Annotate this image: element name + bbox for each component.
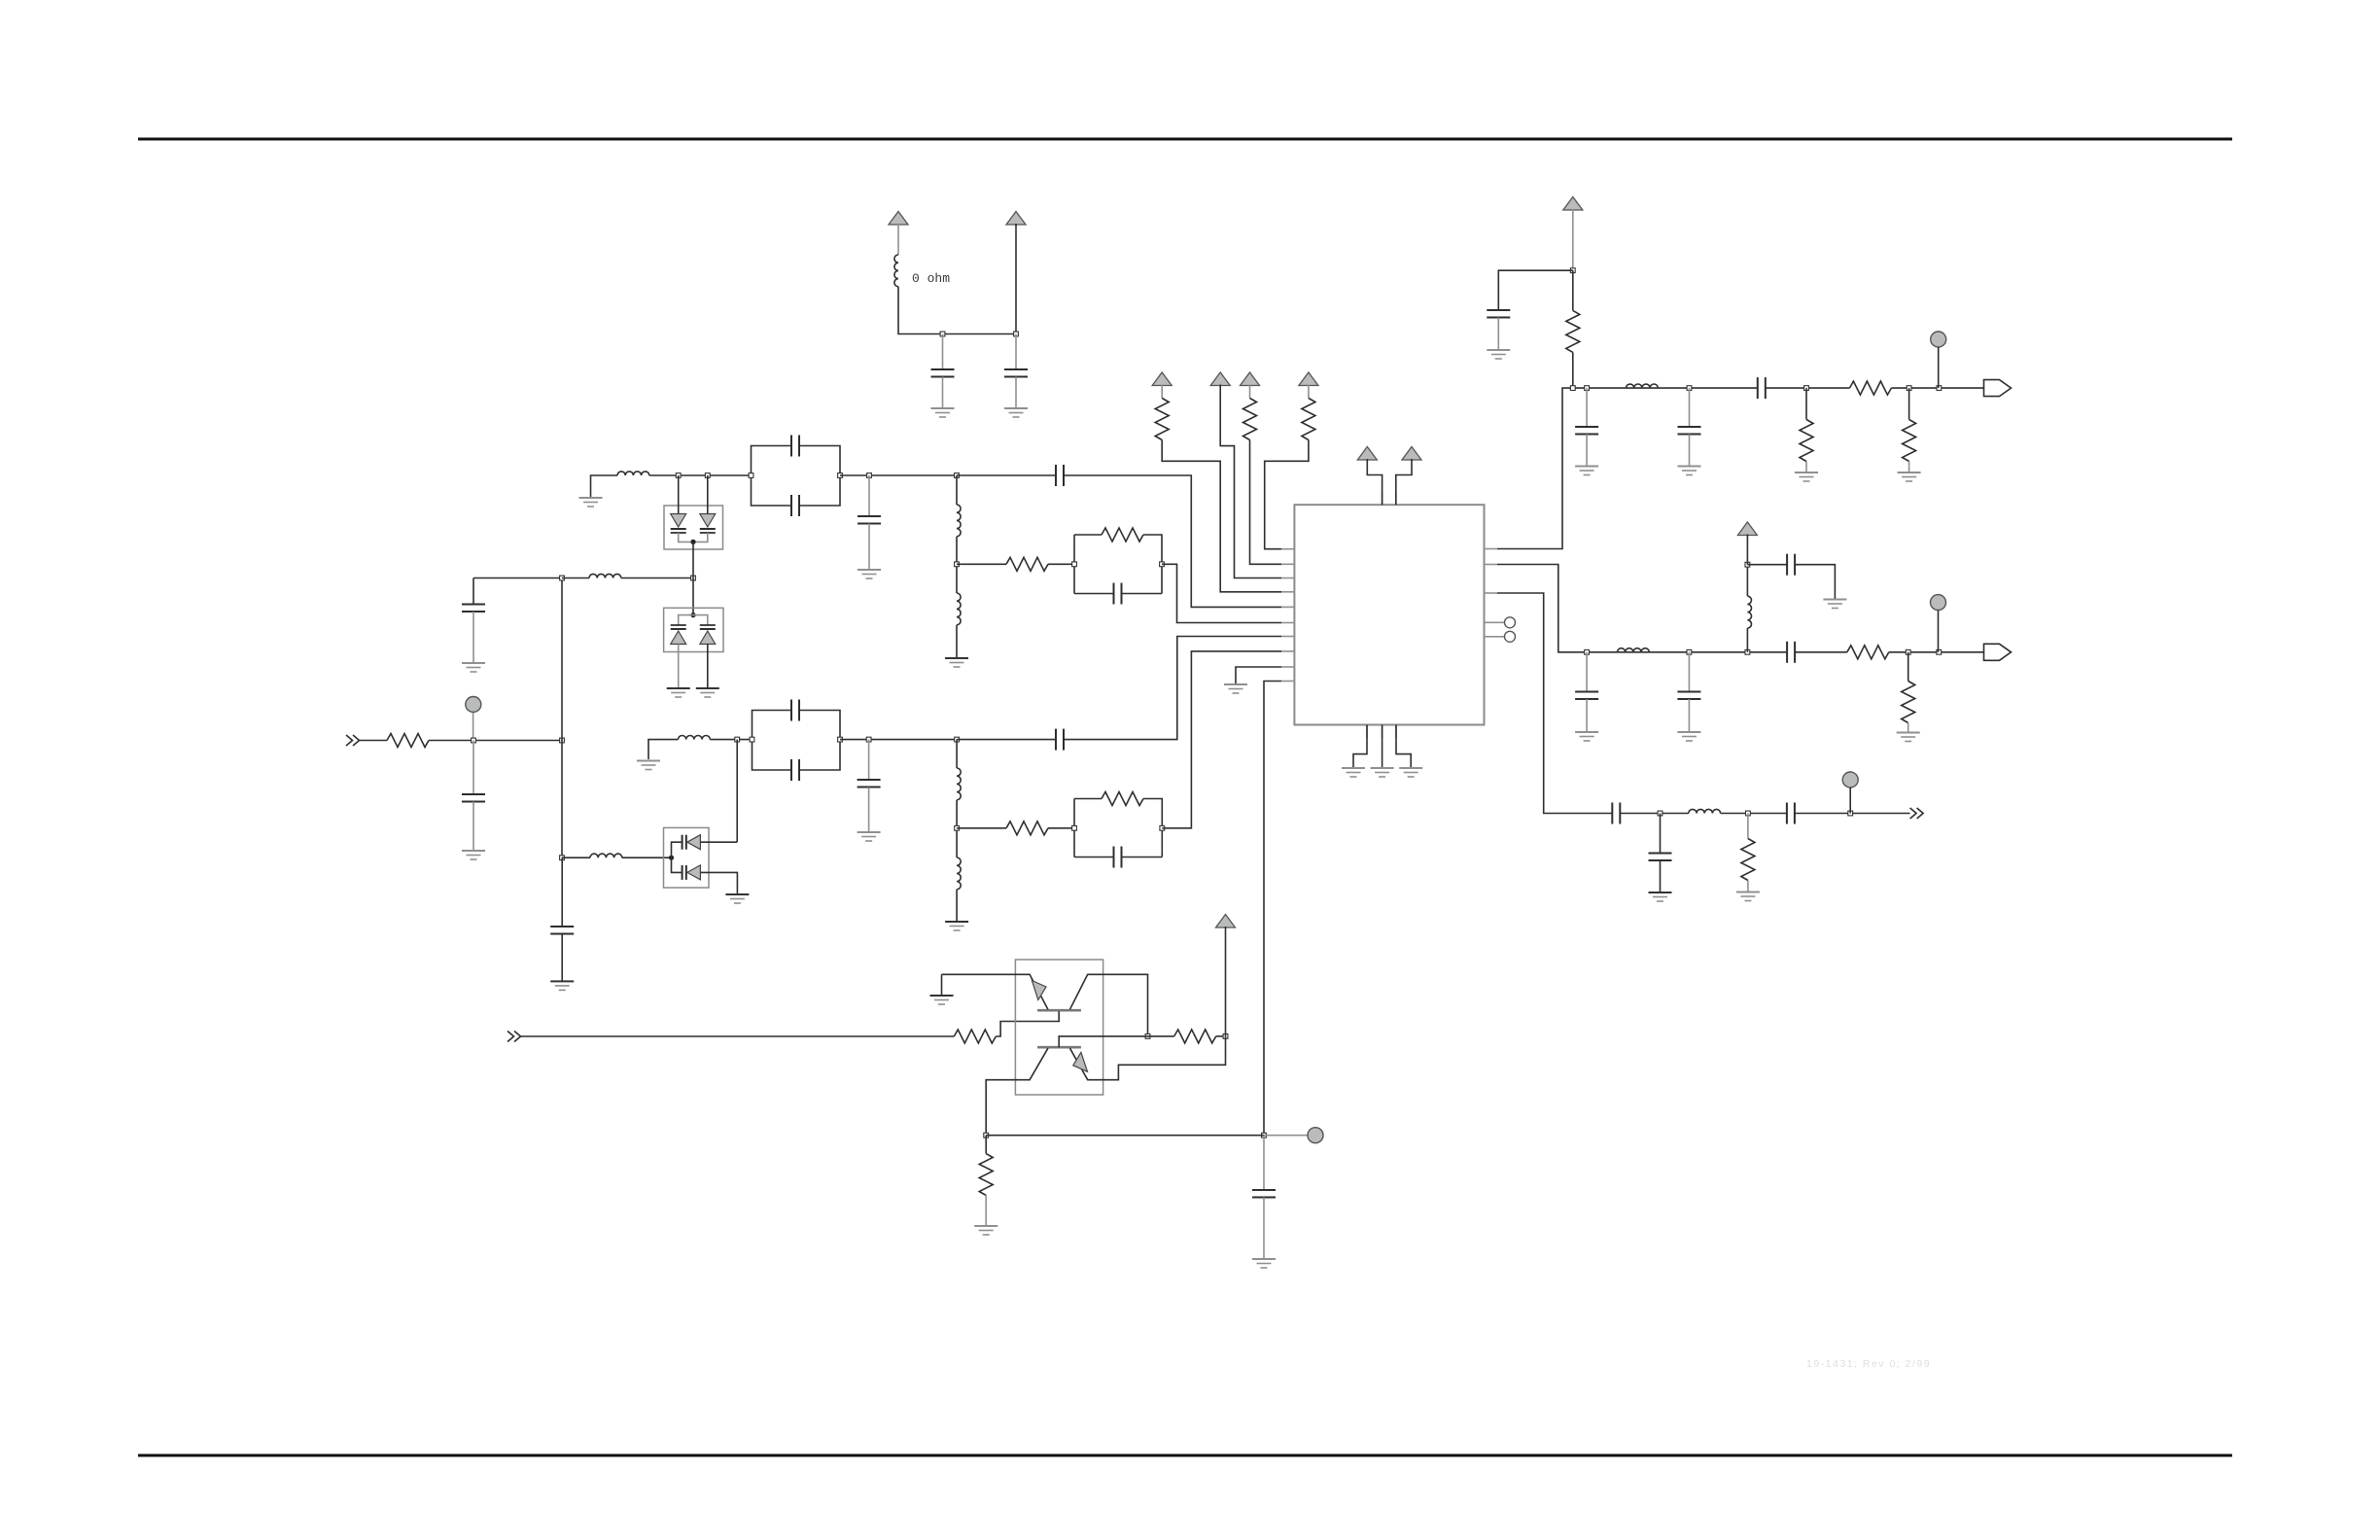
RC2 junctions <box>1072 825 1165 830</box>
resistor R18 <box>979 1154 993 1196</box>
wire NC stub 1 <box>1497 621 1505 623</box>
capacitor C23 series <box>1612 803 1620 824</box>
wire R18 stem <box>985 1136 987 1154</box>
wire C26 to ground <box>1263 1198 1265 1259</box>
wire C2 stem <box>1015 334 1017 370</box>
wire C24 stem <box>1660 814 1662 854</box>
transistor Q2 bar <box>1037 1046 1081 1049</box>
power symbol VCC4 <box>1210 372 1230 386</box>
wire CB2 to node F <box>840 739 957 741</box>
IC U1 right pin stubs <box>1485 549 1498 637</box>
RC2 bottom branch <box>1074 857 1114 858</box>
ground G29 <box>930 996 954 1004</box>
wire C7 stem <box>868 475 870 516</box>
ground G26 <box>1897 733 1920 742</box>
capacitor C22 series <box>1787 642 1795 663</box>
wire chain2 left drop <box>648 740 679 759</box>
wire C20 stem <box>1688 652 1690 691</box>
node F junctions <box>866 737 959 742</box>
capacitor C17 <box>1678 427 1701 435</box>
diode D2a <box>671 625 686 645</box>
wire node H link <box>986 1135 1264 1137</box>
wire R6 to pin <box>1162 440 1281 592</box>
wire R17 lead2 <box>1216 1035 1226 1037</box>
wire D2a to ground <box>678 645 680 688</box>
testpoint TP1 <box>466 697 481 713</box>
capacitor C12 <box>857 780 881 787</box>
ground G15 <box>1371 768 1394 777</box>
resistor R2 <box>1006 557 1048 571</box>
wire C18 to R10 <box>1766 387 1850 389</box>
wire R2 to RC1 <box>1048 563 1074 565</box>
node J junction <box>1804 386 1809 391</box>
wire TP5 stem <box>1264 1135 1308 1137</box>
inductor L8 <box>957 768 961 800</box>
wire C16 to ground <box>1586 435 1588 466</box>
bottom border rule <box>138 1454 2232 1457</box>
ground G13 <box>725 894 749 903</box>
wire RC1 out to pin <box>1162 564 1281 622</box>
testpoint TP2 <box>1931 332 1946 347</box>
wire node D to R2 <box>957 563 1006 565</box>
node D2 dot <box>690 612 695 617</box>
ground G16 <box>1399 768 1422 777</box>
wire VCC5 stem <box>1249 385 1251 399</box>
diode pack D2 outline <box>664 608 723 651</box>
chain1 junctions <box>1570 386 1692 391</box>
RC1 top branch <box>1074 534 1102 536</box>
wire L7 to capbox2 <box>710 739 752 741</box>
wire pin9 to ground <box>1236 667 1281 683</box>
wire R16 to Q1 base <box>996 1010 1059 1036</box>
inductor L7 <box>679 736 711 740</box>
power symbol VCC11 <box>1216 915 1236 928</box>
connector J3 output2 <box>1984 644 2012 660</box>
capacitor C2 <box>1004 369 1028 377</box>
wire Q1 collector <box>1070 974 1148 1036</box>
capacitor C8 series <box>1056 465 1064 486</box>
wire C3 stem <box>472 741 474 795</box>
resistor R6 <box>1155 399 1169 440</box>
capacitor box CB1 frame right <box>799 446 840 507</box>
wire L12 to node L <box>1746 565 1748 597</box>
wire J5 to R16 <box>521 1035 955 1037</box>
wire C26 stem <box>1263 1136 1265 1190</box>
resistor R15 <box>1741 839 1755 881</box>
node C junctions <box>867 473 960 478</box>
ground G24 <box>1677 732 1700 741</box>
node junctions top block <box>940 332 1018 336</box>
wire Q2 emitter <box>986 1048 1048 1136</box>
resistor R10 <box>1849 381 1891 395</box>
resistor R12 <box>1903 420 1916 462</box>
wire L5 to L6 <box>956 537 958 593</box>
wire C13 to pin IN2 <box>1064 637 1281 740</box>
ground G23 <box>1575 732 1598 741</box>
capacitor C1 <box>931 369 955 377</box>
wire C20 to ground <box>1688 699 1690 731</box>
capacitor C16 <box>1575 427 1598 435</box>
RC2 top branch <box>1074 798 1102 800</box>
ground G22 <box>1898 472 1921 481</box>
wire pin O2 down <box>1497 565 1587 652</box>
wire R1 to node A <box>429 740 473 742</box>
resistor R16 <box>954 1030 996 1043</box>
diode D3b <box>682 865 701 880</box>
wire C17 to ground <box>1689 435 1691 466</box>
IC U1 left pin stubs <box>1281 549 1294 682</box>
wire R14 stem <box>1907 652 1909 682</box>
inductor L4 <box>617 472 649 475</box>
wire D3 anode join <box>672 842 682 872</box>
node P junction <box>1145 1034 1150 1039</box>
chain2 out junctions <box>1906 649 1941 654</box>
ground G4 <box>462 663 485 672</box>
chain2 junctions <box>1585 649 1750 654</box>
capacitor C14 <box>1114 847 1122 868</box>
wire shunt top <box>956 475 958 505</box>
wire R11 stem <box>1805 388 1807 419</box>
capacitor C15 <box>1487 310 1510 318</box>
capacitor box CB1 frame <box>752 446 792 507</box>
wire C16 stem <box>1586 388 1588 426</box>
resistor R14 <box>1902 682 1915 723</box>
capacitor C13 series <box>1056 729 1064 751</box>
wire VCC9 stem <box>1572 209 1574 270</box>
wire node B to D2 <box>692 578 694 615</box>
wire node Q to Q2 collector <box>1070 1036 1226 1080</box>
wire VCC10 stem <box>1746 535 1748 565</box>
wire Q2 base <box>1059 1036 1147 1047</box>
RC2 frame left <box>1073 799 1075 857</box>
wire C2 to ground <box>1015 377 1017 408</box>
wire Q1 emitter ground drop <box>941 974 943 995</box>
node M junction <box>1658 811 1662 816</box>
ground G21 <box>1795 472 1818 481</box>
wire C4 to ground <box>472 612 474 662</box>
node K junctions <box>1907 386 1942 391</box>
wire TP1 stem <box>472 713 474 741</box>
wire C12 to ground <box>868 787 870 832</box>
power symbol VCC7 <box>1357 447 1377 461</box>
inductor L11 <box>1618 648 1650 652</box>
RC1 junctions <box>1072 562 1165 567</box>
CB1 junctions <box>749 473 842 478</box>
wire pin O3 down <box>1497 593 1612 814</box>
capacitor C5 <box>791 436 799 457</box>
capacitor C3 <box>462 794 485 802</box>
wire NC stub 2 <box>1497 636 1505 638</box>
wire RC2 out to pin <box>1162 651 1281 828</box>
wire VCC6 stem <box>1308 385 1310 399</box>
diode D1a <box>671 514 686 534</box>
wire C1 stem <box>942 334 944 370</box>
wire VCC11 stem <box>1225 927 1227 1036</box>
bus junctions <box>560 576 565 860</box>
ground G25 <box>1823 600 1846 609</box>
ground G5 <box>579 498 603 507</box>
ground G32 <box>550 981 574 990</box>
wire R7 to pin <box>1250 440 1282 565</box>
wire D1 to node B <box>692 542 694 577</box>
wire C15 to ground <box>1497 318 1499 350</box>
wire chain2 main <box>1587 651 1787 653</box>
wire R14 to ground <box>1907 723 1909 732</box>
NC pin circle 2 <box>1505 631 1516 642</box>
node N junction <box>1746 811 1751 816</box>
resistor R8 <box>1302 399 1315 440</box>
power symbol VCC6 <box>1299 372 1318 386</box>
transistor Q1 bar <box>1037 1009 1081 1012</box>
wire D1 cathode join <box>679 533 708 542</box>
wire C24 to ground <box>1660 860 1662 892</box>
capacitor C21 <box>1787 554 1795 576</box>
footer note <box>1806 1358 1931 1370</box>
node I junction <box>1570 268 1575 273</box>
diode D3a <box>682 835 701 850</box>
resistor R1 <box>387 734 429 748</box>
ground G1 <box>931 408 955 417</box>
wire R15 stem <box>1747 814 1749 839</box>
wire D2b to ground <box>707 645 709 688</box>
wire R13 to out <box>1889 651 1984 653</box>
IC U1 outline <box>1294 505 1484 724</box>
wire J1 to R1 <box>360 740 388 742</box>
wire node A top link <box>473 577 562 579</box>
RC1 bottom right <box>1122 593 1163 595</box>
power symbol VCC2 <box>1006 212 1026 226</box>
wire node F to C13 <box>957 739 1056 741</box>
wire VCC2 stem <box>1015 224 1017 334</box>
resistor R17 <box>1174 1030 1216 1043</box>
resistor R3 <box>1102 528 1143 542</box>
transistor pack Q1 Q2 outline <box>1015 960 1102 1095</box>
wire C1 to ground <box>942 377 944 408</box>
ground G2 <box>1004 408 1028 417</box>
wire GND pin left <box>1353 725 1367 768</box>
capacitor C6 <box>791 495 799 516</box>
resistor R11 <box>1800 420 1813 462</box>
power symbol VCC9 <box>1563 197 1583 211</box>
RC1 bottom branch <box>1074 593 1114 595</box>
inductor L12 <box>1747 596 1751 628</box>
wire L12 stem <box>1746 628 1748 652</box>
wire bus to L3 <box>562 857 590 858</box>
wire L9 to ground <box>956 890 958 921</box>
capacitor C18 series <box>1758 377 1766 399</box>
wire Q1 emitter <box>942 974 1048 1009</box>
testpoint TP5 <box>1308 1128 1323 1143</box>
wire C25 to out <box>1795 813 1910 815</box>
inductor L13 <box>1689 809 1721 813</box>
wire bus to C27 <box>561 857 563 927</box>
ground G8 <box>637 761 660 770</box>
label 0 ohm <box>912 271 950 286</box>
power symbol VCC3 <box>1152 372 1172 386</box>
wire GND pin mid <box>1382 725 1383 768</box>
wire R9 to chain1 <box>1572 352 1574 388</box>
top border rule <box>138 138 2232 141</box>
node D1 dot <box>690 540 695 544</box>
inductor L10 <box>1627 384 1659 388</box>
capacitor C27 <box>550 927 574 934</box>
wire L8 to L9 <box>956 800 958 857</box>
wire L1 to node <box>898 287 1016 334</box>
wire C7 to ground <box>868 524 870 570</box>
wire VCC8 to pin <box>1396 459 1412 505</box>
resistor R7 <box>1243 399 1257 440</box>
wire D3b to ground <box>700 872 737 893</box>
wire R4 to RC2 <box>1048 827 1074 829</box>
capacitor C26 <box>1252 1190 1276 1198</box>
wire C4 hang <box>472 578 474 605</box>
RC2 bottom right <box>1122 857 1163 858</box>
capacitor C20 <box>1677 692 1700 700</box>
connector J1 RF input <box>346 735 360 746</box>
capacitor C19 <box>1575 692 1598 700</box>
wire pin O1 up <box>1497 388 1573 548</box>
wire R8 to pin <box>1265 440 1309 549</box>
wire TP4 stem <box>1849 787 1851 814</box>
capacitor box CB2 frame <box>752 711 792 771</box>
inductor L2 <box>589 574 621 577</box>
capacitor C7 <box>857 516 881 524</box>
wire R11 to ground <box>1805 462 1807 472</box>
power symbol VCC10 <box>1737 522 1757 536</box>
capacitor C11 <box>791 759 799 781</box>
wire VCC7 to pin <box>1367 459 1382 505</box>
ground G9 <box>857 832 881 841</box>
wire R10 to out <box>1891 387 1983 389</box>
ground G28 <box>1736 892 1760 901</box>
wire D3a out <box>700 841 737 843</box>
connector J4 output3 <box>1910 808 1924 819</box>
RC1 frame left <box>1073 535 1075 594</box>
wire node I to C15 <box>1498 270 1573 309</box>
NC pin circle 1 <box>1505 617 1516 628</box>
wire R15 to ground <box>1747 881 1749 892</box>
resistor R4 <box>1006 822 1048 835</box>
inductor L5 <box>957 505 961 537</box>
capacitor C25 series <box>1787 803 1795 824</box>
ground G18 <box>1487 350 1510 359</box>
diode D1b <box>700 514 716 534</box>
ground G7 <box>945 658 968 667</box>
inductor L9 <box>957 857 961 890</box>
wire C22 to R13 <box>1795 651 1847 653</box>
wire node E to D3 top <box>736 740 738 843</box>
ground G31 <box>1252 1259 1276 1268</box>
inductor L3 <box>590 854 622 857</box>
wire C8 to pin IN1 <box>1064 475 1281 607</box>
ground G12 <box>696 688 719 697</box>
IC U1 top pin stubs <box>1382 491 1396 505</box>
wire C3 to ground <box>472 802 474 851</box>
diode pack D1 outline <box>664 506 723 549</box>
resistor R13 <box>1847 646 1889 659</box>
wire C27 to ground <box>561 934 563 981</box>
wire R12 to ground <box>1908 462 1910 472</box>
wire node G to R4 <box>957 827 1006 829</box>
inductor L1 0 ohm <box>894 255 898 287</box>
wire bus vertical <box>561 578 563 858</box>
wire L4 to capbox <box>649 474 752 476</box>
wire pin10 to node H <box>1264 682 1281 1136</box>
node A junctions <box>472 738 565 743</box>
node E junction <box>735 737 740 742</box>
wire C19 stem <box>1586 652 1588 691</box>
node L junction <box>1745 562 1750 567</box>
wire node A to bus <box>473 740 562 742</box>
wire C21 to ground <box>1795 565 1835 599</box>
ground G30 <box>974 1226 997 1235</box>
wire chain1 main <box>1573 387 1758 389</box>
wire L3 to D3 <box>622 857 672 858</box>
IC U1 bottom pin stubs <box>1367 725 1396 739</box>
ground G20 <box>1678 467 1701 475</box>
node D junction <box>955 562 960 567</box>
capacitor C9 <box>1114 583 1122 605</box>
power symbol VCC8 <box>1402 447 1421 461</box>
node Q junction <box>1223 1034 1228 1039</box>
ground G11 <box>667 688 690 697</box>
diode tap junctions <box>676 473 710 478</box>
diode pack D3 outline <box>664 827 710 888</box>
power symbol VCC5 <box>1241 372 1260 386</box>
ground G10 <box>945 922 968 930</box>
capacitor C24 <box>1649 854 1672 861</box>
wire L2 to node B <box>621 577 693 579</box>
wire D2 anode join <box>679 615 708 625</box>
wire node C to C8 <box>957 474 1056 476</box>
diode D2b <box>700 625 716 645</box>
node G junction <box>955 825 960 830</box>
wire R12 stem <box>1908 388 1910 419</box>
transistor Q1 arrow <box>1032 981 1046 1000</box>
wire CB1 to node C <box>840 474 957 476</box>
wire L13 to C25 <box>1721 813 1787 815</box>
svg-text:19-1431; Rev 0; 2/99: 19-1431; Rev 0; 2/99 <box>1806 1358 1931 1370</box>
wire D1 anode stem 2 <box>707 475 709 514</box>
wire TP2 stem <box>1938 347 1940 388</box>
ground G14 <box>1342 768 1365 777</box>
ground G17 <box>1224 684 1247 693</box>
ground G6 <box>857 570 881 578</box>
node H junctions <box>984 1133 1267 1137</box>
ground G3 <box>462 851 485 859</box>
testpoint TP3 <box>1931 595 1946 611</box>
ground G27 <box>1649 892 1672 901</box>
wire D1 anode stems <box>678 475 680 514</box>
node O junction <box>1848 811 1853 816</box>
resistor R5 <box>1102 792 1143 806</box>
transistor Q2 arrow <box>1073 1052 1088 1071</box>
resistor R9 <box>1566 310 1580 352</box>
wire R17 leads <box>1148 1035 1174 1037</box>
wire C19 to ground <box>1586 699 1588 731</box>
wire VCC1 stem <box>897 224 899 255</box>
capacitor C10 <box>791 700 799 721</box>
ground G19 <box>1575 467 1598 475</box>
wire R18 to ground <box>985 1196 987 1226</box>
wire VCC4 to pin <box>1220 385 1281 578</box>
wire TP3 stem <box>1938 611 1940 652</box>
capacitor box CB2 frame right <box>799 711 840 771</box>
wire L6 to ground <box>956 625 958 657</box>
wire node I to R9 <box>1572 270 1574 310</box>
testpoint TP4 <box>1842 772 1858 787</box>
wire bus to L2 <box>562 577 589 579</box>
